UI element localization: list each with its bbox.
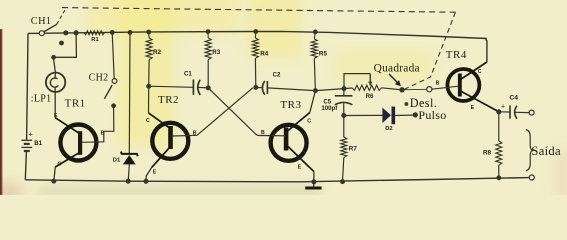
stray printed dot xyxy=(59,41,64,46)
node: R2 bottom junction xyxy=(146,84,151,89)
output brace xyxy=(526,130,533,171)
svg-text:R1: R1 xyxy=(91,37,99,43)
svg-text:R2: R2 xyxy=(153,49,162,56)
svg-text:B: B xyxy=(193,130,197,136)
svg-text:D2: D2 xyxy=(385,126,392,132)
potentiometer R6 xyxy=(352,85,382,90)
resistor R5 xyxy=(313,30,318,35)
node: R3 bottom junction xyxy=(206,85,211,90)
wire: lamp to TR1 emitter xyxy=(54,92,56,118)
node on rail for D1 xyxy=(128,30,133,35)
svg-text:R4: R4 xyxy=(260,50,269,57)
svg-text:B: B xyxy=(261,130,265,136)
node: R4 bottom junction xyxy=(253,85,258,90)
node: C3 top junction xyxy=(342,86,347,91)
switch pole (to TR4 base) xyxy=(427,87,432,92)
svg-text:+: + xyxy=(28,130,33,139)
svg-text:CH2: CH2 xyxy=(89,73,109,84)
node: TR4 emitter junction xyxy=(496,109,501,114)
node: Quadrada contact xyxy=(399,87,404,92)
wire: C2 to R5 junction xyxy=(267,88,352,91)
svg-text:R7: R7 xyxy=(349,146,358,153)
wire: junction to D2 xyxy=(344,114,383,116)
dashed link down to selector switch xyxy=(404,12,455,89)
transistor TR2 xyxy=(152,123,188,159)
battery B1 xyxy=(21,140,32,151)
node: C3 bottom junction xyxy=(341,113,346,118)
svg-text:C: C xyxy=(478,69,482,75)
transistor TR3 xyxy=(271,125,307,161)
wire: TR4 collector to rail xyxy=(486,39,487,62)
svg-text::LP1: :LP1 xyxy=(31,93,52,104)
diode D2 xyxy=(382,108,391,123)
node: Pulso contact xyxy=(413,112,418,117)
node: TR2 emitter on rail xyxy=(144,179,149,184)
svg-text:TR1: TR1 xyxy=(65,98,86,110)
node: CH1 contact xyxy=(63,30,68,35)
node: R8 on rail xyxy=(496,175,501,180)
node: junction to LP1 branch xyxy=(74,30,79,35)
node: Desl. contact xyxy=(405,102,409,106)
svg-text:D1: D1 xyxy=(113,157,121,163)
svg-text:R6: R6 xyxy=(366,93,374,100)
svg-text:E: E xyxy=(298,164,302,170)
node: D1 to ground rail xyxy=(126,179,131,184)
zener diode D1 xyxy=(121,152,138,157)
dashed link from CH1 lever xyxy=(57,8,66,24)
node: TR1 collector to ground rail xyxy=(51,179,56,184)
svg-text:Desl.: Desl. xyxy=(410,96,437,110)
transistor TR4 xyxy=(447,69,479,101)
capacitor C1 xyxy=(192,80,194,95)
wire: TR1 base to CH2 xyxy=(82,106,114,143)
svg-text:R3: R3 xyxy=(212,49,221,56)
svg-text:C: C xyxy=(307,119,311,125)
svg-text:R5: R5 xyxy=(319,50,328,57)
svg-text:TR2: TR2 xyxy=(158,94,179,106)
svg-text:B1: B1 xyxy=(34,140,42,147)
svg-text:100pf: 100pf xyxy=(321,105,338,112)
capacitor C4 xyxy=(499,111,510,113)
page edge strip xyxy=(0,29,2,195)
svg-text:CH1: CH1 xyxy=(31,16,52,27)
svg-text:Saída: Saída xyxy=(531,144,561,158)
resistor R7 xyxy=(343,116,345,138)
capacitor C2 xyxy=(256,86,262,88)
node: TR3 emitter on rail xyxy=(311,179,316,184)
resistor R2 xyxy=(146,30,151,35)
wire: wiper loop over R6 xyxy=(344,74,370,89)
transistor TR1 xyxy=(60,125,96,161)
svg-text:C4: C4 xyxy=(509,95,518,102)
svg-text:TR4: TR4 xyxy=(446,49,467,61)
svg-text:E: E xyxy=(54,113,58,119)
node: R5 bottom junction xyxy=(313,88,318,93)
left rail / battery feed wire xyxy=(27,33,28,140)
resistor R4 xyxy=(253,29,258,34)
bottom ground rail xyxy=(25,178,529,182)
svg-text:C1: C1 xyxy=(184,71,192,78)
node on rail for CH2 xyxy=(110,30,115,35)
wiper arrow of R6 xyxy=(369,74,371,83)
resistor R1 xyxy=(84,31,105,35)
output terminal (bottom) xyxy=(529,175,534,180)
output terminal (top) xyxy=(529,110,534,115)
node: R7 on rail xyxy=(340,179,345,184)
switch CH1 xyxy=(39,31,44,36)
dashed mechanical linkage (top) xyxy=(62,8,455,13)
resistor R8 xyxy=(498,112,500,141)
node at corner xyxy=(51,55,56,60)
lamp LP1 xyxy=(46,73,65,92)
svg-text:E: E xyxy=(471,105,475,111)
top supply rail xyxy=(28,31,487,38)
ground symbol xyxy=(313,182,315,188)
wire: rail to D1 xyxy=(128,32,131,153)
svg-text:+: + xyxy=(501,103,505,110)
wire: rail junction down-left to LP1 xyxy=(53,33,76,73)
switch CH2 xyxy=(112,32,114,78)
svg-text:C: C xyxy=(146,118,150,124)
svg-text:B: B xyxy=(436,81,440,87)
svg-text:R8: R8 xyxy=(483,150,492,157)
wire: cross-couple diagonal to TR3 base xyxy=(208,88,272,136)
svg-text:Quadrada: Quadrada xyxy=(374,63,420,75)
svg-text:TR3: TR3 xyxy=(280,99,301,111)
wire: R6 to selector contact xyxy=(382,88,400,90)
resistor R3 xyxy=(206,29,211,34)
svg-text:Pulso: Pulso xyxy=(418,108,446,122)
wire: R2 junction to C1 xyxy=(149,86,194,87)
svg-text:C: C xyxy=(58,162,62,168)
svg-text:E: E xyxy=(153,170,157,176)
svg-text:C2: C2 xyxy=(273,72,281,79)
capacitor C5 100pf xyxy=(343,89,345,96)
